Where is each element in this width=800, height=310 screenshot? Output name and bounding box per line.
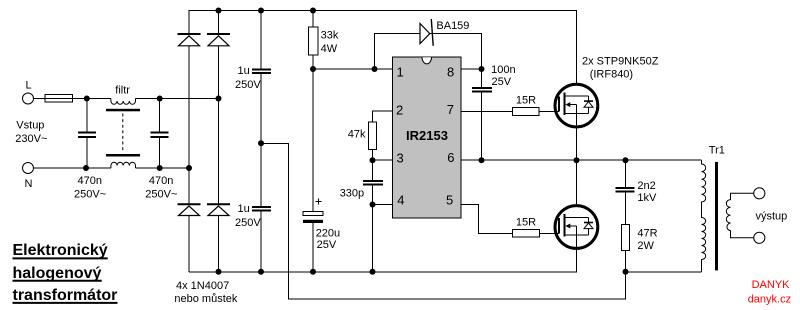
capacitor C8 2n2 1kV: [616, 188, 635, 192]
node junction dots: [83, 8, 629, 275]
diode D4 bridge bottom-right: [207, 204, 230, 215]
transformer Tr1 secondary winding: [726, 193, 753, 238]
svg-text:L: L: [26, 80, 32, 92]
svg-text:Elektronický: Elektronický: [13, 242, 108, 259]
wire IC pin4: [373, 204, 393, 206]
node pin6 / 100n: [479, 157, 485, 163]
wire half-bridge midpoint return: [261, 143, 626, 299]
svg-text:IR2153: IR2153: [406, 128, 448, 143]
capacitor C4 1u 250V bottom: [252, 207, 271, 211]
svg-text:6: 6: [447, 150, 454, 165]
svg-text:33k: 33k: [321, 30, 339, 42]
resistor R5 47R 2W: [621, 224, 629, 250]
svg-text:4: 4: [397, 193, 404, 208]
svg-text:8: 8: [447, 65, 454, 80]
svg-text:filtr: filtr: [115, 85, 130, 97]
svg-text:470n: 470n: [78, 175, 102, 187]
wire 1u capacitor branch: [260, 11, 262, 272]
wire top gate: [539, 111, 559, 113]
svg-text:transformátor: transformátor: [13, 287, 118, 304]
inductor filtr top winding: [111, 99, 136, 105]
wire bridge leg 2 vertical: [218, 11, 220, 272]
filtr core bars: [106, 109, 140, 112]
fuse F1: [45, 95, 73, 103]
filtr coupling dashed line: [122, 114, 124, 152]
svg-text:230V~: 230V~: [15, 133, 47, 145]
resistor R1 33k 4W: [309, 27, 319, 55]
svg-text:5: 5: [446, 192, 453, 207]
node pin4 / 330p: [370, 202, 376, 208]
node pin1 / BA159: [372, 66, 378, 72]
svg-text:25V: 25V: [492, 76, 512, 88]
svg-text:15R: 15R: [516, 217, 536, 229]
node bottom rail / 1u: [258, 269, 264, 275]
svg-text:1u: 1u: [238, 203, 250, 215]
svg-text:250V~: 250V~: [74, 189, 106, 201]
node pin6 / MOSFET midpoint: [574, 157, 580, 163]
svg-text:nebo můstek: nebo můstek: [174, 293, 237, 305]
wire IC pin3: [373, 159, 393, 161]
svg-text:N: N: [25, 178, 33, 190]
diode D1 bridge top-left: [178, 34, 201, 46]
svg-text:danyk.cz: danyk.cz: [748, 293, 791, 305]
wire bridge leg 1 vertical: [188, 46, 190, 272]
capacitor C7 100n 25V: [472, 88, 492, 92]
wire 100n branch: [481, 69, 483, 160]
resistor R3 15R top: [513, 108, 540, 116]
diode D2 bridge top-right: [207, 34, 230, 46]
inductor filtr bottom winding: [111, 162, 136, 168]
svg-text:1u: 1u: [238, 65, 250, 77]
svg-text:470n: 470n: [149, 175, 173, 187]
diode D3 bridge bottom-left: [178, 204, 201, 215]
wire 47k to 330p chain: [372, 150, 374, 272]
wire MOSFET2 drain: [576, 160, 578, 205]
wire N input line: [34, 167, 111, 169]
svg-text:2W: 2W: [637, 240, 654, 252]
svg-text:2x STP9NK50Z: 2x STP9NK50Z: [582, 56, 659, 68]
svg-text:1kV: 1kV: [637, 192, 657, 204]
svg-text:250V~: 250V~: [145, 189, 177, 201]
wire 33k/220u branch: [312, 11, 314, 272]
resistor R2 47k: [368, 122, 376, 150]
svg-text:2: 2: [396, 102, 403, 117]
terminal L: [23, 93, 34, 104]
wire snubber branch: [625, 160, 627, 272]
node bottom rail / bridge leg2: [216, 269, 222, 275]
capacitor C2 470n right: [151, 99, 169, 169]
node snubber bottom / primary: [623, 269, 629, 275]
svg-text:3: 3: [397, 150, 404, 165]
svg-text:100n: 100n: [491, 64, 515, 76]
wire L input to fuse: [34, 98, 46, 100]
svg-text:220u: 220u: [316, 228, 340, 240]
wire transformer primary bottom: [626, 271, 702, 273]
transformer Tr1 core: [715, 162, 718, 271]
svg-text:47k: 47k: [348, 129, 366, 141]
wire MOSFET1 source to node: [576, 127, 578, 160]
svg-text:250V: 250V: [235, 79, 261, 91]
wire BA159 loop: [375, 34, 482, 70]
terminal N: [23, 163, 34, 174]
node pin3 / 47k / 330p: [370, 157, 376, 163]
capacitor C5 220u 25V electrolytic: [303, 199, 323, 224]
node top rail / bridge leg2: [216, 8, 222, 14]
node L wire / 470n right: [157, 96, 163, 102]
svg-text:2n2: 2n2: [637, 180, 655, 192]
resistor R4 15R bottom: [513, 229, 540, 237]
diode D5 BA159: [420, 19, 433, 46]
svg-text:Vstup: Vstup: [16, 120, 44, 132]
node N wire / 470n right: [157, 165, 163, 171]
svg-text:výstup: výstup: [756, 211, 788, 223]
node N wire / bridge leg1: [186, 165, 192, 171]
wire IC pin5 to lower gate resistor: [461, 205, 513, 234]
wire IC pin6 output node: [461, 159, 702, 161]
wire IC pin7 to gate resistor: [461, 111, 513, 113]
node L wire / 470n left: [84, 96, 90, 102]
wire top positive rail: [189, 11, 577, 85]
node bottom rail / IC com: [370, 269, 376, 275]
node top rail / 1u: [258, 8, 264, 14]
svg-text:330p: 330p: [340, 188, 364, 200]
node 1u midpoint: [258, 140, 264, 146]
svg-text:7: 7: [447, 102, 454, 117]
capacitor C3 1u 250V top: [252, 69, 271, 73]
svg-text:15R: 15R: [516, 95, 536, 107]
capacitor C6 330p: [363, 181, 383, 185]
wire IC pin8: [461, 68, 482, 70]
transformer Tr1 primary winding: [702, 160, 706, 272]
node top rail / 33k: [310, 8, 316, 14]
output terminal top: [754, 188, 765, 199]
capacitor C1 470n left: [78, 99, 96, 169]
wire IC pin2 to 47k: [373, 111, 393, 122]
node pin8 / BA159 / 100n: [479, 66, 485, 72]
svg-text:4W: 4W: [321, 43, 338, 55]
svg-text:halogenový: halogenový: [13, 265, 102, 282]
node bottom rail / 220u: [310, 269, 316, 275]
svg-text:250V: 250V: [235, 217, 261, 229]
wire bottom negative rail: [189, 249, 577, 272]
transistor Q2 STP9NK50Z bottom: [555, 206, 598, 249]
svg-text:DANYK: DANYK: [752, 279, 791, 291]
node pin1 / 33k: [310, 66, 316, 72]
node pin6 / snubber top: [623, 157, 629, 163]
svg-text:47R: 47R: [637, 227, 657, 239]
wire bottom gate: [540, 232, 560, 234]
wire IC pin1 supply: [313, 68, 393, 70]
output terminal bottom: [754, 232, 765, 243]
svg-text:4x 1N4007: 4x 1N4007: [176, 280, 229, 292]
wire fuse to bridge (L line): [73, 98, 111, 100]
svg-text:1: 1: [397, 65, 404, 80]
node N wire / 470n left: [83, 165, 89, 171]
svg-text:25V: 25V: [317, 239, 337, 251]
svg-text:Tr1: Tr1: [709, 145, 725, 157]
svg-text:(IRF840): (IRF840): [590, 69, 633, 81]
op-amp U1 IR2153 body: [393, 57, 462, 218]
svg-text:BA159: BA159: [436, 20, 469, 32]
transistor Q1 STP9NK50Z top: [555, 84, 598, 127]
node L wire / bridge leg2: [216, 96, 222, 102]
